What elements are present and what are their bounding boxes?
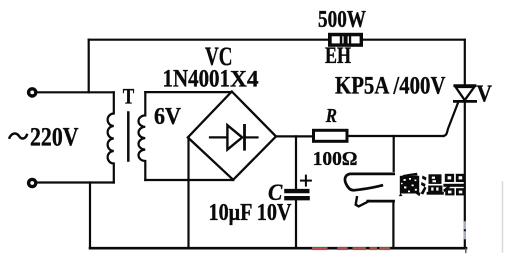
capacitor C plates <box>284 191 310 198</box>
heater element EH body <box>328 33 363 47</box>
capacitor C polarity plus sign <box>301 176 311 186</box>
wire: lower mains lead from terminal to transformer primary <box>37 181 114 183</box>
wire: capacitor drop from DC+ node <box>295 136 297 189</box>
wire: capacitor bottom lead to bottom rail <box>295 199 297 248</box>
svg-text:1N4001: 1N4001 <box>163 66 231 93</box>
char WEN <box>421 174 444 194</box>
wire: top rail left segment (to heater EH) <box>89 39 329 41</box>
thermal sensor lower contact hook <box>356 197 369 206</box>
wire: top rail right segment (EH to top-right corner) <box>363 39 465 41</box>
wire: right rail lower (thyristor cathode to bottom rail) <box>464 102 466 248</box>
wire: secondary bottom to bridge bottom vertex <box>145 179 233 181</box>
thyristor V triangle <box>456 87 475 100</box>
svg-text:10μF 10V: 10μF 10V <box>209 200 293 226</box>
wire: R to thyristor gate (horizontal run) <box>348 135 444 137</box>
svg-text:220V: 220V <box>30 122 79 151</box>
svg-text:EH: EH <box>325 43 351 68</box>
scan fade marks on right rail <box>464 223 466 239</box>
wire: bottom rail <box>90 247 466 250</box>
wire: right rail upper (corner down to thyristor anode) <box>464 40 466 85</box>
wire: thyristor gate lead (bend up to cathode) <box>444 103 459 136</box>
svg-text:KP5A /400V: KP5A /400V <box>335 73 446 100</box>
char GAN <box>399 173 421 197</box>
bridge rectifier VC diamond <box>188 92 276 180</box>
wire: bottom-left riser <box>89 183 91 249</box>
thyristor V anode bar <box>455 84 475 87</box>
wire: bridge DC+ to resistor R <box>276 135 313 137</box>
svg-text:6V: 6V <box>154 104 182 130</box>
wire: bridge DC- drop to bottom rail <box>187 138 189 248</box>
transformer T primary winding (with leads) <box>108 92 114 182</box>
terminal: lower mains input <box>29 179 36 186</box>
svg-text:V: V <box>477 81 493 107</box>
svg-text:X4: X4 <box>230 67 259 92</box>
svg-text:500W: 500W <box>318 7 366 33</box>
bridge internal diode <box>210 125 258 149</box>
svg-text:R: R <box>325 105 337 127</box>
wire: upper mains lead from terminal to transformer primary <box>37 91 114 93</box>
wire: sensor bottom lead to bottom rail <box>392 201 394 248</box>
label Chinese: sensor name (drawn blocks) <box>399 173 466 197</box>
terminal: upper mains input <box>29 89 36 96</box>
wire: top-left riser from mains wire to top rail <box>88 40 90 93</box>
thermal sensor lower bar <box>368 200 394 203</box>
thyristor V cathode bar <box>454 100 475 103</box>
wire: sensor drop from gate node <box>393 136 395 171</box>
thermal sensor bimetal element (top arm with U-bend) <box>345 174 394 190</box>
transformer T secondary winding (with leads) <box>139 92 146 180</box>
scan tick at bottom-right corner <box>465 249 467 253</box>
red dashed marks on bottom rail <box>312 247 390 250</box>
svg-text:100Ω: 100Ω <box>313 148 358 170</box>
faint scan edge mark right border <box>502 182 504 252</box>
transformer T core <box>127 113 130 161</box>
wire: secondary top to bridge top vertex <box>145 91 232 93</box>
resistor R body <box>314 130 348 141</box>
svg-text:T: T <box>123 84 135 109</box>
label ~220V tilde <box>9 133 27 138</box>
char QI <box>443 174 465 196</box>
